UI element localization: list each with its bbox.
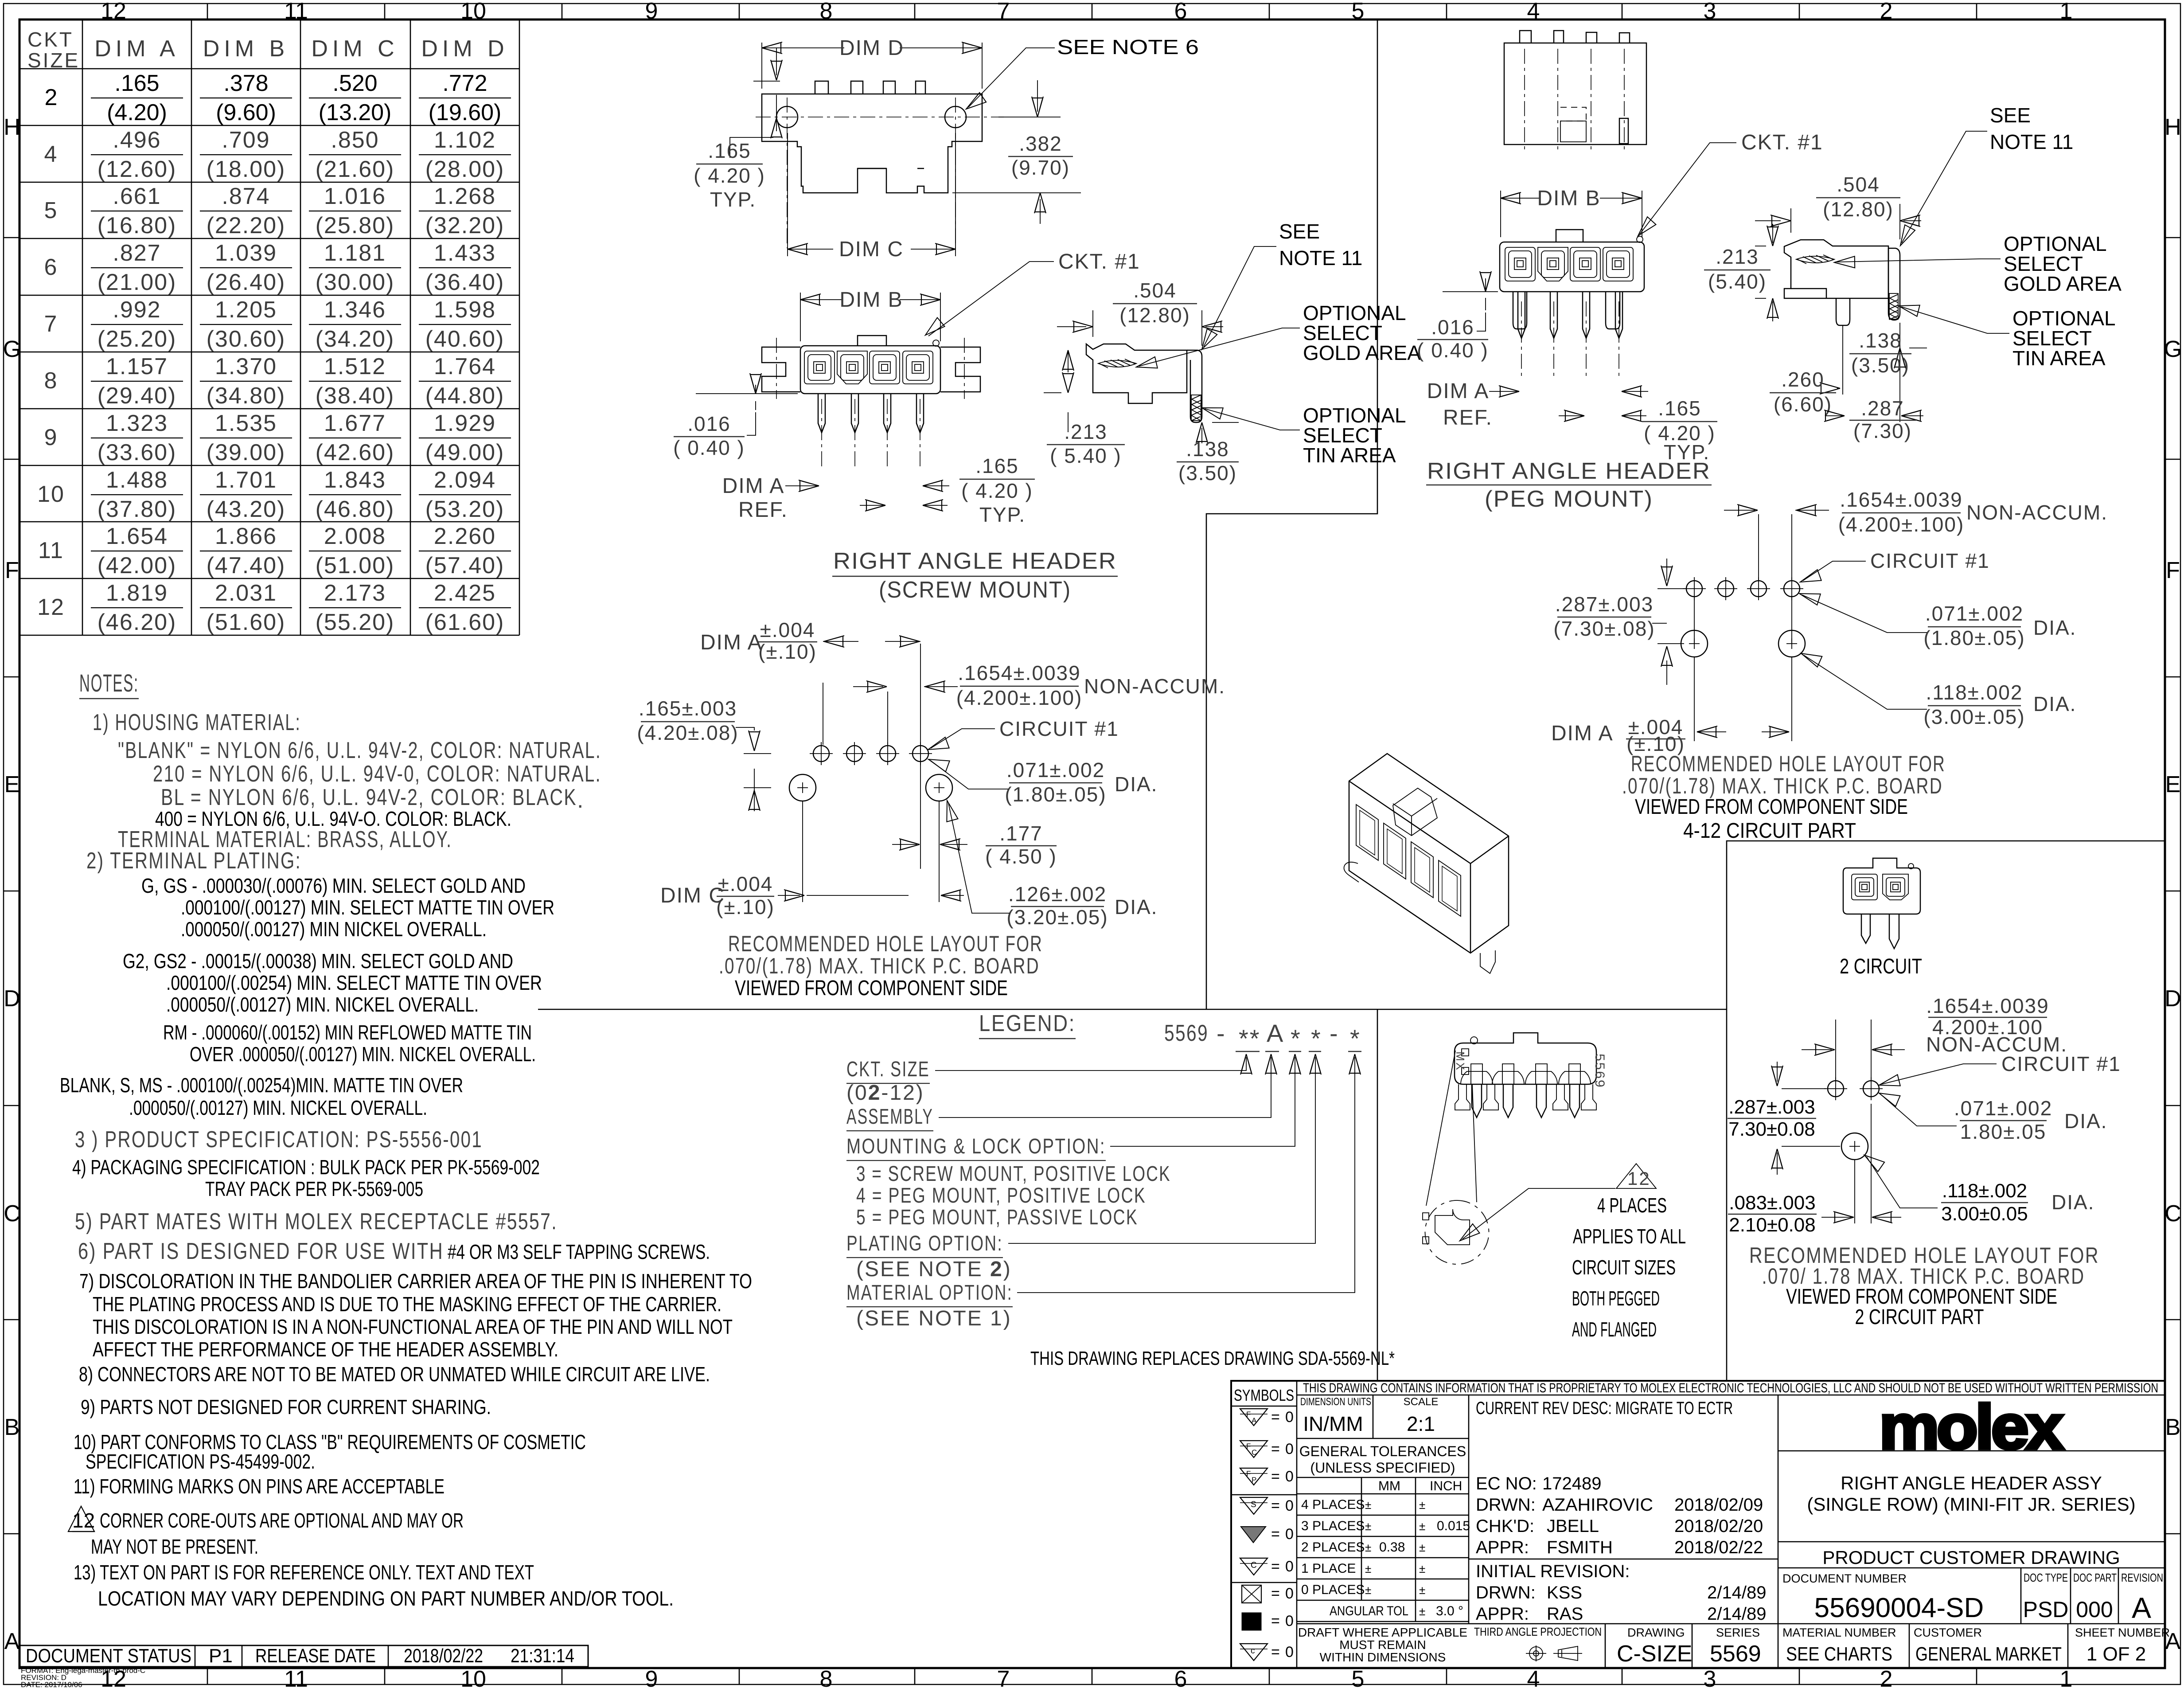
svg-text:(55.20): (55.20)	[316, 610, 395, 635]
svg-text:(42.00): (42.00)	[97, 553, 177, 578]
svg-text:(4.200±.100): (4.200±.100)	[1838, 513, 1965, 536]
svg-text:H: H	[2164, 114, 2181, 140]
svg-text:2.425: 2.425	[434, 580, 496, 606]
svg-text:.000100/(.00127) MIN. SELECT M: .000100/(.00127) MIN. SELECT MATTE TIN O…	[181, 896, 554, 919]
svg-text:5: 5	[1352, 0, 1365, 24]
svg-text:VIEWED FROM COMPONENT SIDE: VIEWED FROM COMPONENT SIDE	[735, 977, 1008, 1000]
svg-text:PSD: PSD	[2023, 1597, 2069, 1622]
svg-text:1.102: 1.102	[434, 127, 496, 153]
svg-text:(3.20±.05): (3.20±.05)	[1006, 906, 1108, 929]
svg-text:±: ±	[1419, 1498, 1425, 1512]
svg-text:(25.80): (25.80)	[316, 213, 395, 238]
svg-text:DIM D: DIM D	[839, 36, 904, 60]
svg-text:.070/(1.78) MAX. THICK P.C. BO: .070/(1.78) MAX. THICK P.C. BOARD	[1622, 774, 1943, 798]
svg-text:±: ±	[1365, 1583, 1371, 1597]
svg-text:EC NO:: EC NO:	[1476, 1474, 1537, 1493]
svg-text:CKT: CKT	[27, 28, 74, 51]
svg-text:(49.00): (49.00)	[425, 440, 505, 465]
svg-text:3: 3	[1704, 1666, 1716, 1688]
svg-text:SEE: SEE	[1279, 220, 1320, 243]
svg-text:TYP.: TYP.	[979, 503, 1026, 526]
svg-text:.126±.002: .126±.002	[1008, 883, 1107, 906]
svg-text:.118±.002: .118±.002	[1926, 681, 2023, 704]
svg-text:11: 11	[284, 1666, 308, 1688]
svg-text:55690004-SD: 55690004-SD	[1814, 1593, 1984, 1623]
svg-text:±: ±	[1365, 1541, 1371, 1554]
svg-text:(57.40): (57.40)	[425, 553, 505, 578]
svg-text:4: 4	[1527, 0, 1540, 24]
svg-text:C: C	[1252, 1448, 1257, 1457]
svg-text:(53.20): (53.20)	[425, 496, 505, 522]
svg-text:(±.10): (±.10)	[716, 895, 775, 918]
svg-text:.165: .165	[114, 70, 159, 96]
centerlines	[803, 644, 939, 902]
svg-text:P: P	[1252, 1476, 1256, 1484]
svg-text:G: G	[3, 336, 21, 362]
svg-text:1.535: 1.535	[215, 410, 277, 436]
svg-text:( 0.40 ): ( 0.40 )	[1417, 339, 1489, 362]
dim DIM B peg	[1501, 191, 1642, 237]
table row CKT 9	[44, 410, 511, 465]
tin area hatch on pin	[1191, 395, 1201, 421]
svg-text:DOCUMENT STATUS: DOCUMENT STATUS	[26, 1645, 191, 1667]
svg-text:5569: 5569	[1710, 1641, 1761, 1667]
svg-text:9) PARTS NOT DESIGNED FOR CURR: 9) PARTS NOT DESIGNED FOR CURRENT SHARIN…	[81, 1395, 491, 1418]
svg-text:GENERAL MARKET: GENERAL MARKET	[1915, 1643, 2062, 1665]
svg-text:0: 0	[1285, 1497, 1294, 1514]
svg-text:1: 1	[2060, 1666, 2073, 1688]
svg-text:(21.00): (21.00)	[97, 270, 177, 295]
svg-text:2.008: 2.008	[324, 524, 386, 549]
svg-text:C: C	[1251, 1561, 1257, 1570]
svg-text:1: 1	[2060, 0, 2073, 24]
svg-text:4 PLACES: 4 PLACES	[1597, 1194, 1667, 1217]
svg-text:.070/(1.78) MAX. THICK P.C. BO: .070/(1.78) MAX. THICK P.C. BOARD	[719, 953, 1040, 978]
svg-text:(3.50): (3.50)	[1178, 461, 1237, 485]
svg-text:(38.40): (38.40)	[316, 383, 395, 409]
svg-text:DOC TYPE: DOC TYPE	[2024, 1571, 2068, 1584]
svg-text:1.370: 1.370	[215, 354, 277, 379]
svg-text:.260: .260	[1781, 368, 1825, 391]
svg-text:12: 12	[1627, 1168, 1651, 1189]
svg-text:(51.60): (51.60)	[207, 610, 286, 635]
housing bottom view	[1455, 1033, 1596, 1084]
svg-text:A: A	[1252, 1416, 1257, 1425]
svg-text:DRWN:: DRWN:	[1476, 1583, 1536, 1602]
svg-text:LEGEND:: LEGEND:	[979, 1011, 1076, 1036]
svg-text:APPLIES TO ALL: APPLIES TO ALL	[1573, 1225, 1686, 1248]
svg-text:A: A	[2132, 1591, 2151, 1624]
svg-text:2018/02/09: 2018/02/09	[1674, 1495, 1763, 1515]
svg-text:CUSTOMER: CUSTOMER	[1914, 1626, 1982, 1639]
svg-text:CIRCUIT #1: CIRCUIT #1	[999, 717, 1119, 740]
2-circuit hole pattern	[1828, 1081, 1844, 1097]
symbol flag row 9	[1240, 1644, 1267, 1661]
svg-text:6: 6	[1174, 0, 1187, 24]
svg-text:DIM B: DIM B	[1537, 187, 1600, 210]
svg-text:.504: .504	[1133, 279, 1177, 302]
partition wire right of legend	[1377, 1009, 1378, 1381]
svg-text:.165±.003: .165±.003	[639, 697, 737, 720]
corner detail inside circle	[1435, 1209, 1470, 1245]
dim .260 peg	[1837, 325, 1843, 395]
zone numbers top	[101, 0, 2072, 24]
symbol flag row 4	[1240, 1497, 1267, 1514]
svg-text:F: F	[1246, 1469, 1251, 1478]
dim .1654 peg pitch	[1724, 510, 1829, 511]
partition wire below 2-circuit	[1726, 1009, 1728, 1381]
svg-text:.016: .016	[687, 412, 731, 435]
svg-text:5: 5	[44, 198, 58, 223]
svg-text:(7.30): (7.30)	[1853, 419, 1912, 442]
2-circuit front view	[1843, 858, 1920, 949]
zone letters right	[2164, 114, 2182, 1654]
svg-text:±: ±	[1419, 1562, 1425, 1575]
svg-text:B: B	[4, 1414, 20, 1440]
svg-text:.772: .772	[442, 70, 487, 96]
svg-text:CORNER CORE-OUTS ARE OPTIONAL: CORNER CORE-OUTS ARE OPTIONAL AND MAY OR	[100, 1509, 464, 1532]
svg-text:C: C	[2164, 1201, 2181, 1227]
symbol flag row 2	[1240, 1441, 1267, 1457]
svg-text:210 = NYLON 6/6, U.L. 94V-0,: 210 = NYLON 6/6, U.L. 94V-0, COLOR: NATU…	[153, 761, 601, 787]
svg-text:(51.00): (51.00)	[316, 553, 395, 578]
svg-text:0: 0	[1285, 1613, 1294, 1629]
svg-text:DIM A: DIM A	[1427, 379, 1490, 403]
svg-text:(12.60): (12.60)	[97, 156, 177, 182]
screw holes	[776, 106, 798, 128]
svg-text:.709: .709	[222, 127, 270, 153]
svg-text:KSS: KSS	[1547, 1583, 1582, 1602]
svg-text:( 0.40 ): ( 0.40 )	[673, 436, 745, 459]
dim .287 peg	[1826, 323, 1923, 422]
svg-text:CIRCUIT #1: CIRCUIT #1	[2001, 1052, 2121, 1075]
svg-text:.1654±.0039: .1654±.0039	[1840, 488, 1962, 511]
svg-text:MUST REMAIN: MUST REMAIN	[1339, 1638, 1426, 1652]
svg-text:12: 12	[37, 594, 65, 620]
cavity 2	[837, 351, 867, 384]
symbol flag row 7	[1242, 1585, 1261, 1603]
svg-text:(46.80): (46.80)	[316, 496, 395, 522]
svg-text:1.819: 1.819	[106, 580, 168, 606]
svg-text:(18.00): (18.00)	[207, 156, 286, 182]
symbol flag row 5	[1241, 1527, 1266, 1543]
svg-text:0.38: 0.38	[1379, 1540, 1405, 1555]
symbol flag row 1	[1240, 1409, 1267, 1426]
svg-text:0.015: 0.015	[1437, 1519, 1470, 1533]
table row CKT 5	[44, 184, 511, 238]
svg-text:SEE CHARTS: SEE CHARTS	[1786, 1643, 1892, 1665]
svg-text:RAS: RAS	[1547, 1604, 1583, 1624]
svg-text:DIA.: DIA.	[2033, 616, 2076, 639]
svg-text:=: =	[1271, 1644, 1280, 1661]
svg-text:3.00±0.05: 3.00±0.05	[1941, 1203, 2028, 1225]
svg-text:(32.20): (32.20)	[425, 213, 505, 238]
housing peg front	[1500, 242, 1644, 292]
svg-text:(SEE NOTE 1): (SEE NOTE 1)	[856, 1307, 1012, 1330]
svg-text:DIA.: DIA.	[2051, 1191, 2094, 1214]
svg-text:=: =	[1271, 1409, 1280, 1426]
svg-text:S: S	[1251, 1500, 1256, 1509]
svg-text:6: 6	[44, 254, 58, 280]
svg-text:=: =	[1271, 1468, 1280, 1485]
svg-text:7: 7	[997, 1666, 1010, 1688]
svg-text:172489: 172489	[1542, 1474, 1601, 1493]
svg-text:C-SIZE: C-SIZE	[1617, 1641, 1692, 1667]
svg-text:2.031: 2.031	[215, 580, 277, 606]
svg-text:(±.10): (±.10)	[758, 640, 817, 663]
svg-text:RECOMMENDED HOLE LAYOUT FOR: RECOMMENDED HOLE LAYOUT FOR	[1631, 751, 1946, 776]
svg-text:JBELL: JBELL	[1547, 1516, 1599, 1536]
svg-text:.: .	[577, 787, 585, 813]
svg-text:DIM A: DIM A	[1551, 722, 1614, 745]
pegs beside pins 1 and 4	[1455, 1084, 1470, 1110]
svg-text:LOCATION MAY VARY DEPENDING ON: LOCATION MAY VARY DEPENDING ON PART NUMB…	[98, 1587, 674, 1610]
svg-text:(46.20): (46.20)	[97, 610, 177, 635]
svg-text:9: 9	[645, 0, 658, 24]
dim DIM C	[788, 133, 955, 256]
dim .138	[1202, 422, 1239, 443]
svg-text:E: E	[4, 772, 20, 797]
svg-text:5 = PEG MOUNT, PASSIVE LOCK: 5 = PEG MOUNT, PASSIVE LOCK	[856, 1206, 1138, 1229]
svg-text:CIRCUIT SIZES: CIRCUIT SIZES	[1572, 1256, 1676, 1279]
svg-text:OVER .000050/(.00127) MIN. NIC: OVER .000050/(.00127) MIN. NICKEL OVERAL…	[190, 1043, 536, 1066]
svg-text:0 PLACES: 0 PLACES	[1301, 1582, 1365, 1597]
svg-text:±: ±	[1365, 1498, 1371, 1512]
svg-text:2/14/89: 2/14/89	[1707, 1583, 1766, 1602]
dim DIM D	[762, 43, 982, 89]
svg-text:(3.50): (3.50)	[1851, 354, 1910, 377]
svg-text:10: 10	[460, 1666, 486, 1688]
svg-text:12: 12	[101, 0, 126, 24]
svg-text:.213: .213	[1064, 420, 1108, 443]
svg-text:5569: 5569	[1592, 1054, 1607, 1089]
svg-text:(33.60): (33.60)	[97, 440, 177, 465]
svg-text:INCH: INCH	[1430, 1479, 1462, 1493]
svg-text:±: ±	[1419, 1583, 1425, 1597]
svg-text:.382: .382	[1019, 132, 1062, 155]
svg-text:NON-ACCUM.: NON-ACCUM.	[1966, 501, 2108, 524]
svg-text:BLANK, S, MS - .000100/(.00254: BLANK, S, MS - .000100/(.00254)MIN. MATT…	[60, 1074, 463, 1097]
svg-text:DRAFT WHERE APPLICABLE: DRAFT WHERE APPLICABLE	[1298, 1625, 1467, 1639]
svg-text:DOCUMENT NUMBER: DOCUMENT NUMBER	[1782, 1572, 1907, 1585]
note 12 triangle flag	[68, 1506, 94, 1532]
svg-text:1.677: 1.677	[324, 410, 386, 436]
svg-text:±: ±	[1365, 1520, 1371, 1533]
svg-text:DIM B: DIM B	[203, 36, 289, 62]
svg-text:DIA.: DIA.	[2033, 692, 2076, 715]
table row CKT 6	[44, 240, 511, 295]
svg-text:.000050/(.00127) MIN. NICKEL O: .000050/(.00127) MIN. NICKEL OVERALL.	[129, 1096, 427, 1119]
table row CKT 11	[38, 524, 511, 578]
svg-text:MATERIAL OPTION:: MATERIAL OPTION:	[846, 1281, 1013, 1305]
svg-text:.016: .016	[1431, 316, 1474, 339]
symbol flag row 8	[1242, 1613, 1261, 1630]
svg-text:3 = SCREW MOUNT, POSITIVE LOCK: 3 = SCREW MOUNT, POSITIVE LOCK	[856, 1162, 1171, 1186]
svg-text:(6.60): (6.60)	[1774, 393, 1832, 416]
svg-text:.1654±.0039: .1654±.0039	[1926, 994, 2049, 1017]
svg-text:(61.60): (61.60)	[425, 610, 505, 635]
svg-text:VIEWED FROM COMPONENT SIDE: VIEWED FROM COMPONENT SIDE	[1635, 795, 1908, 819]
svg-text:.496: .496	[113, 127, 161, 153]
svg-text:( 4.20 ): ( 4.20 )	[961, 479, 1033, 502]
svg-text:1.764: 1.764	[434, 354, 496, 379]
dim .165 typ left	[730, 48, 780, 158]
svg-text:10: 10	[37, 481, 65, 507]
svg-text:1.512: 1.512	[324, 354, 386, 379]
svg-text:(02-12): (02-12)	[846, 1081, 924, 1105]
svg-text:(43.20): (43.20)	[207, 496, 286, 522]
svg-text:4) PACKAGING SPECIFICATION : B: 4) PACKAGING SPECIFICATION : BULK PACK P…	[72, 1156, 540, 1179]
svg-text:(21.60): (21.60)	[316, 156, 395, 182]
svg-text:(1.80±.05): (1.80±.05)	[1005, 783, 1106, 806]
svg-text:(16.80): (16.80)	[97, 213, 177, 238]
svg-text:2: 2	[1880, 0, 1893, 24]
third angle projection symbols	[1526, 1645, 1582, 1661]
svg-text:1.654: 1.654	[106, 524, 168, 549]
symbol flag row 3	[1240, 1468, 1267, 1485]
table row CKT 12	[37, 580, 511, 635]
svg-text:DIM B: DIM B	[839, 288, 903, 312]
svg-text:CKT. SIZE: CKT. SIZE	[846, 1058, 930, 1081]
svg-text:(36.40): (36.40)	[425, 270, 505, 295]
svg-text:G, GS - .000030/(.00076) MIN.: G, GS - .000030/(.00076) MIN. SELECT GOL…	[141, 874, 526, 897]
svg-text:5) PART MATES WITH MOLEX RECEP: 5) PART MATES WITH MOLEX RECEPTACLE #555…	[75, 1209, 558, 1235]
svg-text:INITIAL REVISION:: INITIAL REVISION:	[1476, 1562, 1630, 1581]
svg-text:c: c	[1251, 1646, 1255, 1656]
svg-text:-: -	[1217, 1019, 1226, 1047]
svg-text:1.346: 1.346	[324, 297, 386, 323]
svg-text:MM: MM	[1378, 1479, 1400, 1493]
svg-text:11: 11	[38, 538, 64, 563]
svg-text:2:1: 2:1	[1407, 1412, 1435, 1435]
svg-text:.177: .177	[999, 822, 1043, 845]
symbol flag row 6	[1240, 1558, 1267, 1575]
svg-text:.213: .213	[1716, 245, 1759, 268]
svg-text:1.039: 1.039	[215, 240, 277, 266]
svg-text:(UNLESS SPECIFIED): (UNLESS SPECIFIED)	[1310, 1460, 1455, 1476]
svg-text:1.268: 1.268	[434, 184, 496, 209]
svg-text:=: =	[1271, 1558, 1280, 1575]
cavity 1	[804, 351, 835, 384]
dim DIM B	[800, 293, 940, 341]
svg-text:THIS DRAWING REPLACES DRAWING: THIS DRAWING REPLACES DRAWING SDA-5569-N…	[1030, 1348, 1395, 1369]
svg-text:±: ±	[1419, 1520, 1425, 1533]
svg-text:0: 0	[1285, 1468, 1294, 1485]
svg-text:AFFECT THE PERFORMANCE OF THE: AFFECT THE PERFORMANCE OF THE HEADER ASS…	[93, 1338, 558, 1361]
svg-text:±: ±	[1419, 1541, 1425, 1554]
svg-text:(13.20): (13.20)	[319, 100, 392, 125]
svg-text:2.094: 2.094	[434, 467, 496, 493]
svg-text:4: 4	[1527, 1666, 1540, 1688]
svg-text:2/14/89: 2/14/89	[1707, 1604, 1766, 1624]
svg-text:(25.20): (25.20)	[97, 326, 177, 352]
svg-text:GOLD AREA: GOLD AREA	[2004, 272, 2122, 295]
svg-text:F: F	[2166, 558, 2180, 583]
svg-text:MOUNTING & LOCK OPTION:: MOUNTING & LOCK OPTION:	[846, 1135, 1106, 1158]
svg-text:NOTE 11: NOTE 11	[1279, 246, 1362, 270]
svg-text:(44.80): (44.80)	[425, 383, 505, 409]
svg-text:(19.60): (19.60)	[429, 100, 502, 125]
svg-text:0: 0	[1285, 1441, 1294, 1457]
svg-text:.071±.002: .071±.002	[1954, 1097, 2052, 1120]
svg-text:G: G	[2164, 336, 2182, 362]
svg-text:=: =	[1271, 1613, 1280, 1629]
svg-text:.165: .165	[975, 454, 1019, 477]
svg-text:NON-ACCUM.: NON-ACCUM.	[1084, 675, 1225, 698]
svg-text:1.433: 1.433	[434, 240, 496, 266]
svg-text:1.80±.05: 1.80±.05	[1960, 1120, 2047, 1143]
svg-text:BOTH PEGGED: BOTH PEGGED	[1572, 1287, 1660, 1310]
svg-text:ASSEMBLY: ASSEMBLY	[846, 1105, 933, 1129]
svg-text:(5.40): (5.40)	[1708, 270, 1767, 293]
svg-text:(SINGLE ROW) (MINI-FIT JR. SER: (SINGLE ROW) (MINI-FIT JR. SERIES)	[1807, 1494, 2135, 1515]
cavity 4	[903, 351, 933, 384]
svg-text:DOC PART: DOC PART	[2073, 1571, 2117, 1584]
svg-text:DIA.: DIA.	[2064, 1110, 2107, 1133]
svg-text:(34.80): (34.80)	[207, 383, 286, 409]
svg-text:SERIES: SERIES	[1716, 1626, 1760, 1639]
svg-text:.165: .165	[1658, 397, 1701, 420]
svg-text:1 PLACE: 1 PLACE	[1301, 1561, 1356, 1576]
svg-text:7.30±0.08: 7.30±0.08	[1728, 1118, 1815, 1140]
pins front	[818, 394, 825, 433]
svg-text:(30.60): (30.60)	[207, 326, 286, 352]
svg-text:.874: .874	[222, 184, 270, 209]
svg-text:±: ±	[1419, 1605, 1425, 1618]
svg-text:(30.00): (30.00)	[316, 270, 395, 295]
svg-text:0: 0	[1285, 1409, 1294, 1426]
fine print format block	[21, 1666, 145, 1688]
svg-text:B: B	[2165, 1414, 2181, 1440]
svg-text:PLATING OPTION:: PLATING OPTION:	[846, 1232, 1003, 1255]
svg-text:GOLD AREA: GOLD AREA	[1303, 341, 1421, 364]
svg-text:0: 0	[1285, 1526, 1294, 1543]
svg-text:.287: .287	[1861, 397, 1904, 420]
svg-text:RECOMMENDED HOLE LAYOUT FOR: RECOMMENDED HOLE LAYOUT FOR	[728, 931, 1043, 956]
svg-text:A: A	[4, 1629, 20, 1654]
svg-text:.138: .138	[1186, 438, 1229, 461]
svg-text:5: 5	[1352, 1666, 1365, 1688]
svg-text:DIM D: DIM D	[421, 36, 508, 62]
svg-text:RM - .000060/(.00152) MIN REFL: RM - .000060/(.00152) MIN REFLOWED MATTE…	[163, 1021, 532, 1044]
svg-text:SIZE: SIZE	[27, 49, 80, 72]
svg-text:1 OF 2: 1 OF 2	[2086, 1643, 2146, 1665]
svg-text:AND FLANGED: AND FLANGED	[1572, 1318, 1657, 1341]
svg-text:.661: .661	[113, 184, 161, 209]
svg-text:APPR:: APPR:	[1476, 1604, 1529, 1624]
svg-text:(7.30±.08): (7.30±.08)	[1553, 617, 1655, 640]
svg-text:( 4.20 ): ( 4.20 )	[694, 164, 765, 187]
svg-text:=: =	[1271, 1526, 1280, 1543]
svg-text:2.173: 2.173	[324, 580, 386, 606]
svg-text:REF.: REF.	[738, 498, 788, 522]
svg-text:BL = NYLON 6/6, U.L. 94V-2, C: BL = NYLON 6/6, U.L. 94V-2, COLOR: BLACK	[161, 785, 577, 810]
pegs below	[1513, 292, 1620, 329]
peg cavity 1	[1505, 247, 1535, 281]
svg-text:10: 10	[460, 0, 486, 24]
svg-text:1.598: 1.598	[434, 297, 496, 323]
svg-text:5569: 5569	[1164, 1020, 1209, 1046]
svg-text:(26.40): (26.40)	[207, 270, 286, 295]
svg-text:SEE: SEE	[1990, 104, 2031, 127]
svg-text:DRAWING: DRAWING	[1627, 1626, 1685, 1639]
svg-text:2018/02/22: 2018/02/22	[404, 1645, 483, 1667]
dim .165 typ pins	[860, 505, 885, 506]
svg-text:1.866: 1.866	[215, 524, 277, 549]
svg-text:THIRD ANGLE PROJECTION: THIRD ANGLE PROJECTION	[1474, 1625, 1602, 1638]
svg-text:=: =	[1271, 1497, 1280, 1514]
svg-text:1.701: 1.701	[215, 467, 277, 493]
